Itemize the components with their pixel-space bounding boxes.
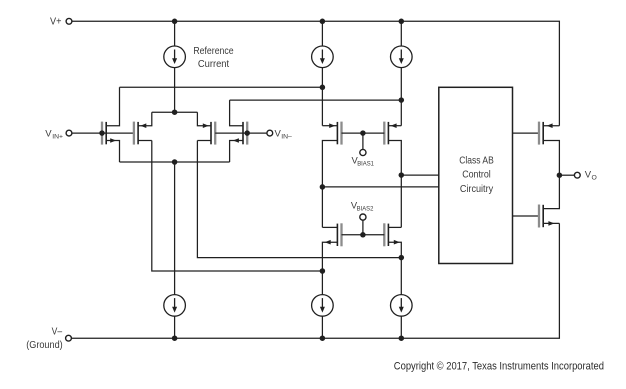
svg-text:(Ground): (Ground) <box>26 340 63 351</box>
node junction: I2 output to left cascode feed wire <box>320 85 326 91</box>
terminal VBIAS1 <box>360 149 366 155</box>
node junction: V+ rail to second top current source <box>320 19 326 25</box>
wire from M5/M7 column to Class AB control box <box>322 186 438 188</box>
svg-text:BIAS2: BIAS2 <box>357 205 374 212</box>
transistor M7 (VBIAS2 left) <box>340 223 342 246</box>
wire from V+ rail down to current source I3 <box>400 21 402 46</box>
wire stub VBIAS2 terminal <box>362 220 364 235</box>
svg-text:V+: V+ <box>50 17 62 28</box>
wire from current source I6 down to V- rail <box>400 316 402 338</box>
wire from outer tail node down to bottom current source I4 <box>174 162 176 295</box>
wire from M6/M8 column to Class AB control box <box>401 174 439 176</box>
block Class AB Control Circuitry <box>439 87 513 263</box>
svg-text:O: O <box>592 174 597 181</box>
node junction: outer tail to bottom current source I4 <box>172 159 178 165</box>
current source I2 (top middle) <box>312 46 334 68</box>
svg-text:Copyright © 2017, Texas Instru: Copyright © 2017, Texas Instruments Inco… <box>394 360 604 372</box>
current source I1 (reference current) <box>164 46 186 68</box>
wire M3 source down and across to right bottom column <box>197 141 401 258</box>
wire from V+ rail down to current source I2 <box>321 21 323 46</box>
svg-text:Current: Current <box>198 59 230 70</box>
wire outer-pair tail <box>120 161 230 163</box>
wire V- rail from V- terminal across bottom and up to lower output transistor <box>71 223 559 338</box>
wire from current source I2 down to VBIAS1 left transistor drain leg <box>321 68 323 126</box>
wire V+ rail from V+ terminal across top and down to upper output transistor <box>72 21 560 125</box>
wire VIN+ input to gates of M1 and M2 <box>72 132 134 134</box>
node junction: I3 output to outer-pair drain wire <box>399 97 405 103</box>
node junction: V+ rail to reference current source <box>172 19 178 25</box>
wire from current source I4 down to V- rail <box>174 316 176 338</box>
node junction: M5 source column tap to Class AB box <box>320 184 326 190</box>
terminal V+ <box>66 18 72 24</box>
wire from V+ rail down to reference current source <box>174 21 176 46</box>
node junction: VIN- wire at M4 gate <box>244 130 250 136</box>
svg-text:Circuitry: Circuitry <box>460 184 493 195</box>
node junction: V- rail to right bottom current source <box>399 335 405 341</box>
current source I3 (top right) <box>391 46 413 68</box>
transistor M1 (outer left input) <box>101 122 103 145</box>
svg-text:Control: Control <box>462 170 491 181</box>
node junction: M2 source wire to I5 column <box>320 268 326 274</box>
wire inner-pair tail <box>152 111 198 113</box>
svg-text:V–: V– <box>52 326 63 337</box>
wire from current source I5 down to V- rail <box>321 316 323 338</box>
wire Class AB box to M9 gate <box>513 132 540 134</box>
node junction: V- rail to left bottom current source <box>172 335 178 341</box>
svg-text:V: V <box>45 128 52 139</box>
terminal VIN+ <box>66 130 72 136</box>
node junction: inner tail to reference current <box>172 109 178 115</box>
transistor M8 (VBIAS2 right) <box>383 223 385 246</box>
terminal VIN- <box>267 130 273 136</box>
node VO junction of output transistors <box>557 172 563 178</box>
transistor M3 (inner right input) <box>214 122 216 145</box>
svg-text:Class AB: Class AB <box>459 155 494 166</box>
node junction: VBIAS1 gate bus to VBIAS1 terminal <box>360 130 366 136</box>
svg-text:Reference: Reference <box>193 46 234 57</box>
node junction: V- rail to middle bottom current source <box>320 335 326 341</box>
transistor M9 (upper output) <box>538 122 540 145</box>
wire M2 source down and across to middle bottom column <box>152 141 323 272</box>
transistor M6 (VBIAS1 right cascode) <box>383 122 385 145</box>
terminal VBIAS2 <box>360 214 366 220</box>
svg-text:IN–: IN– <box>281 133 292 140</box>
node junction: M6 source column tap to Class AB box <box>399 172 405 178</box>
wire outer-right drain across to I3 output node <box>230 99 402 101</box>
wire stub VBIAS1 terminal <box>362 133 364 150</box>
svg-text:BIAS1: BIAS1 <box>357 161 374 168</box>
current source I5 (bottom middle) <box>312 295 334 317</box>
wire from current source I3 down to VBIAS1 right transistor drain leg <box>400 68 402 126</box>
node junction: VIN+ wire at M1 gate <box>99 130 105 136</box>
current source I4 (bottom left) <box>164 295 186 317</box>
wire VBIAS1 gate bus <box>342 132 385 134</box>
current source I6 (bottom right) <box>391 295 413 317</box>
transistor M5 (VBIAS1 left cascode) <box>340 122 342 145</box>
wire VO node to VO terminal <box>559 174 574 176</box>
wire from reference current source down to inner-pair tail node <box>174 68 176 113</box>
transistor M2 (inner left input) <box>133 122 135 145</box>
node junction: V+ rail to third top current source <box>399 19 405 25</box>
node junction: M3 source wire to I6 column <box>399 255 405 261</box>
transistor M10 (lower output) <box>538 205 540 228</box>
transistor M4 (outer right input) <box>246 122 248 145</box>
wire Class AB box to M10 gate <box>513 215 540 217</box>
terminal VO <box>574 172 580 178</box>
wire VBIAS2 gate bus <box>342 234 385 236</box>
wire left cascode feed: M1 drain across to I2 output node <box>120 86 323 88</box>
wire gates of M3 and M4 to VIN- terminal <box>215 132 267 134</box>
node junction: VBIAS2 gate bus to VBIAS2 terminal <box>360 232 366 238</box>
svg-text:IN+: IN+ <box>52 133 63 140</box>
terminal V- (Ground) <box>66 335 72 341</box>
